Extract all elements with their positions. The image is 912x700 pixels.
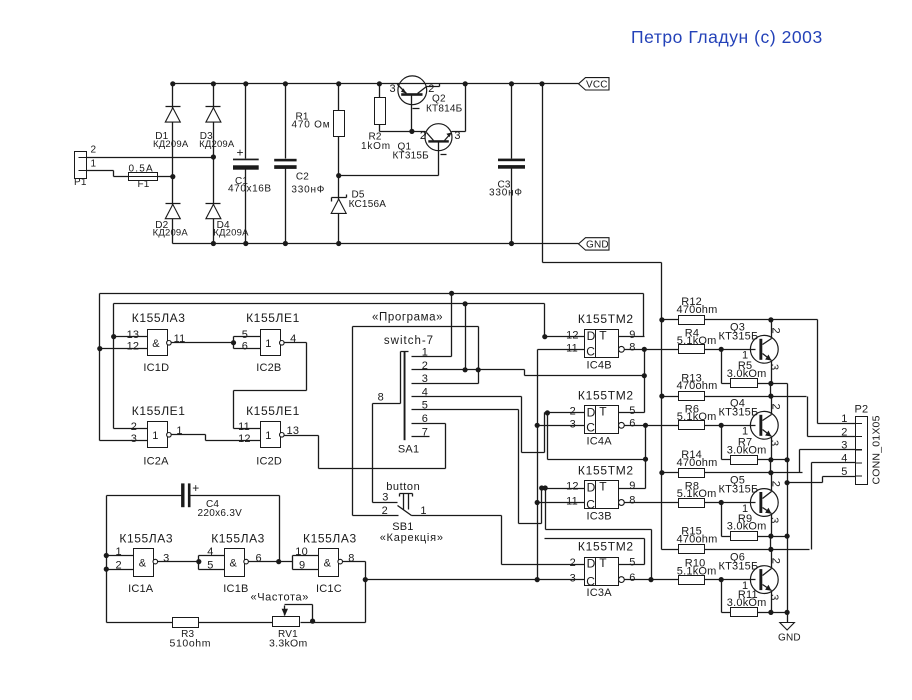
svg-text:3.0kОm: 3.0kОm (727, 444, 767, 456)
svg-text:9: 9 (299, 559, 305, 571)
svg-text:IC1C: IC1C (316, 583, 342, 595)
svg-text:К155ЛА3: К155ЛА3 (303, 531, 357, 545)
svg-text:IC1B: IC1B (223, 583, 248, 595)
svg-text:2: 2 (770, 328, 782, 334)
svg-text:К155ЛЕ1: К155ЛЕ1 (246, 404, 300, 418)
svg-text:+: + (237, 145, 244, 159)
svg-text:510ohm: 510ohm (170, 637, 212, 649)
svg-text:2: 2 (570, 557, 576, 569)
svg-text:330нФ: 330нФ (291, 185, 325, 196)
svg-text:IC3B: IC3B (587, 511, 612, 523)
svg-text:6: 6 (422, 413, 428, 425)
svg-text:3: 3 (768, 440, 780, 446)
svg-text:КТ315Б: КТ315Б (393, 150, 430, 161)
svg-text:470ohm: 470ohm (677, 304, 718, 316)
svg-text:К155ЛА3: К155ЛА3 (211, 531, 265, 545)
svg-text:IC1A: IC1A (128, 583, 154, 595)
svg-text:1: 1 (265, 338, 271, 350)
svg-text:8: 8 (629, 342, 635, 354)
svg-text:2: 2 (91, 144, 97, 155)
svg-text:КС156А: КС156А (349, 199, 387, 210)
svg-text:К155ТМ2: К155ТМ2 (578, 388, 634, 402)
svg-text:2: 2 (770, 558, 782, 564)
svg-text:К155ТМ2: К155ТМ2 (578, 463, 634, 477)
svg-text:4: 4 (207, 546, 213, 558)
svg-text:4: 4 (841, 453, 847, 465)
svg-text:«Частота»: «Частота» (251, 592, 309, 604)
svg-text:5.1kОm: 5.1kОm (677, 335, 717, 347)
svg-text:5.1kОm: 5.1kОm (677, 411, 717, 423)
svg-text:3.0kОm: 3.0kОm (727, 597, 767, 609)
svg-text:C: C (586, 498, 595, 512)
svg-text:К155ТМ2: К155ТМ2 (578, 312, 634, 326)
svg-text:11: 11 (174, 333, 186, 345)
svg-text:К155ЛА3: К155ЛА3 (119, 531, 173, 545)
svg-text:4: 4 (422, 386, 428, 398)
svg-text:5: 5 (422, 400, 428, 412)
svg-text:470x16В: 470x16В (228, 184, 272, 195)
svg-text:1: 1 (116, 546, 122, 558)
svg-text:2: 2 (422, 360, 428, 372)
svg-text:Петро Гладун (с) 2003: Петро Гладун (с) 2003 (631, 27, 823, 47)
svg-text:7: 7 (422, 426, 428, 438)
svg-text:КД209А: КД209А (153, 139, 189, 150)
svg-text:1: 1 (265, 430, 271, 442)
svg-text:switch-7: switch-7 (384, 335, 434, 347)
svg-text:6: 6 (242, 341, 248, 353)
svg-text:P2: P2 (855, 404, 869, 416)
svg-text:T: T (599, 328, 607, 342)
svg-text:GND: GND (586, 240, 609, 251)
svg-text:IC1D: IC1D (143, 362, 169, 374)
svg-text:IC2B: IC2B (256, 362, 281, 374)
svg-text:3: 3 (841, 440, 847, 452)
svg-text:3.0kОm: 3.0kОm (727, 521, 767, 533)
svg-text:1kОm: 1kОm (361, 141, 391, 152)
svg-text:2: 2 (131, 421, 137, 433)
svg-text:IC2D: IC2D (256, 456, 282, 468)
svg-text:5.1kОm: 5.1kОm (677, 565, 717, 577)
svg-text:T: T (599, 480, 607, 494)
svg-text:К155ЛА3: К155ЛА3 (132, 311, 186, 325)
svg-text:&: & (230, 557, 238, 569)
svg-text:6: 6 (629, 572, 635, 584)
svg-text:2: 2 (382, 505, 388, 517)
svg-text:12: 12 (566, 481, 579, 493)
svg-text:9: 9 (629, 329, 635, 341)
svg-text:3: 3 (768, 364, 780, 370)
svg-text:КД209А: КД209А (213, 228, 249, 239)
svg-text:3: 3 (570, 418, 576, 430)
svg-text:IC2A: IC2A (143, 456, 169, 468)
svg-text:5.1kОm: 5.1kОm (677, 488, 717, 500)
svg-text:5: 5 (207, 559, 213, 571)
svg-text:3: 3 (768, 517, 780, 523)
svg-text:5: 5 (841, 466, 847, 478)
svg-text:3.0kОm: 3.0kОm (727, 368, 767, 380)
svg-text:5: 5 (242, 329, 248, 341)
svg-text:IC4B: IC4B (587, 359, 612, 371)
svg-text:1: 1 (152, 430, 158, 442)
svg-text:470ohm: 470ohm (677, 380, 718, 392)
svg-text:3: 3 (422, 373, 428, 385)
svg-text:3: 3 (131, 433, 137, 445)
svg-text:5: 5 (629, 405, 635, 417)
svg-text:F1: F1 (138, 179, 150, 190)
svg-text:12: 12 (566, 329, 579, 341)
svg-text:2: 2 (770, 404, 782, 410)
svg-text:8: 8 (629, 495, 635, 507)
svg-text:13: 13 (287, 425, 300, 437)
svg-text:2: 2 (841, 426, 847, 438)
svg-text:КД209А: КД209А (153, 228, 189, 239)
svg-text:470 Ом: 470 Ом (292, 120, 331, 131)
svg-text:&: & (152, 338, 160, 350)
svg-text:КТ315Б: КТ315Б (719, 561, 759, 573)
svg-text:К155ЛЕ1: К155ЛЕ1 (246, 311, 300, 325)
svg-text:«Програма»: «Програма» (372, 312, 443, 324)
svg-text:1: 1 (841, 413, 847, 425)
svg-text:2: 2 (570, 406, 576, 418)
svg-text:D: D (587, 480, 596, 494)
svg-text:+: + (192, 481, 199, 495)
svg-text:3: 3 (382, 491, 388, 503)
svg-text:КТ315Б: КТ315Б (719, 406, 759, 418)
svg-text:К155ТМ2: К155ТМ2 (578, 540, 634, 554)
svg-text:470ohm: 470ohm (677, 457, 718, 469)
svg-text:КД209А: КД209А (199, 139, 235, 150)
svg-text:3: 3 (390, 83, 396, 95)
svg-text:11: 11 (566, 342, 578, 354)
svg-text:GND: GND (778, 633, 801, 644)
svg-text:КТ315Б: КТ315Б (719, 484, 759, 496)
svg-text:D: D (587, 329, 596, 343)
svg-text:К155ЛЕ1: К155ЛЕ1 (132, 404, 186, 418)
svg-text:IC4A: IC4A (587, 436, 613, 448)
svg-text:3: 3 (163, 553, 169, 565)
svg-text:1: 1 (91, 158, 97, 169)
svg-text:6: 6 (256, 553, 262, 565)
svg-text:12: 12 (238, 433, 251, 445)
svg-text:T: T (599, 405, 607, 419)
svg-text:8: 8 (348, 553, 354, 565)
svg-text:330нФ: 330нФ (489, 188, 523, 199)
svg-text:6: 6 (629, 418, 635, 430)
svg-text:5: 5 (629, 557, 635, 569)
svg-text:C: C (586, 420, 595, 434)
svg-text:&: & (324, 557, 332, 569)
svg-text:T: T (599, 556, 607, 570)
svg-text:КТ814Б: КТ814Б (426, 104, 463, 115)
svg-text:SA1: SA1 (398, 443, 419, 455)
svg-text:3.3kОm: 3.3kОm (269, 637, 308, 649)
svg-text:10: 10 (295, 546, 308, 558)
svg-text:VCC: VCC (586, 80, 608, 91)
svg-text:470ohm: 470ohm (677, 534, 718, 546)
svg-text:2: 2 (116, 559, 122, 571)
svg-text:CONN_01X05: CONN_01X05 (870, 415, 882, 484)
svg-text:12: 12 (127, 341, 140, 353)
svg-text:3: 3 (454, 130, 460, 142)
svg-text:1: 1 (176, 425, 182, 437)
svg-text:IC3A: IC3A (587, 587, 613, 599)
svg-text:11: 11 (238, 421, 250, 433)
svg-text:8: 8 (378, 391, 384, 403)
svg-text:3: 3 (570, 573, 576, 585)
svg-text:«Карекція»: «Карекція» (380, 532, 444, 544)
svg-text:1: 1 (420, 505, 426, 517)
svg-text:D: D (587, 557, 596, 571)
svg-text:P1: P1 (74, 177, 87, 188)
svg-text:220x6.3V: 220x6.3V (198, 508, 243, 519)
svg-text:КТ315Б: КТ315Б (719, 330, 759, 342)
svg-text:1: 1 (422, 347, 428, 359)
svg-text:D: D (587, 405, 596, 419)
svg-text:9: 9 (629, 480, 635, 492)
svg-text:0.5A: 0.5A (129, 163, 154, 174)
svg-text:C2: C2 (296, 171, 309, 182)
svg-text:13: 13 (127, 329, 140, 341)
svg-text:2: 2 (770, 481, 782, 487)
svg-text:C: C (586, 344, 595, 358)
svg-text:3: 3 (768, 594, 780, 600)
svg-text:4: 4 (290, 333, 296, 345)
svg-text:11: 11 (566, 496, 578, 508)
svg-text:2: 2 (420, 130, 426, 142)
svg-text:button: button (386, 481, 420, 493)
svg-text:&: & (139, 557, 147, 569)
